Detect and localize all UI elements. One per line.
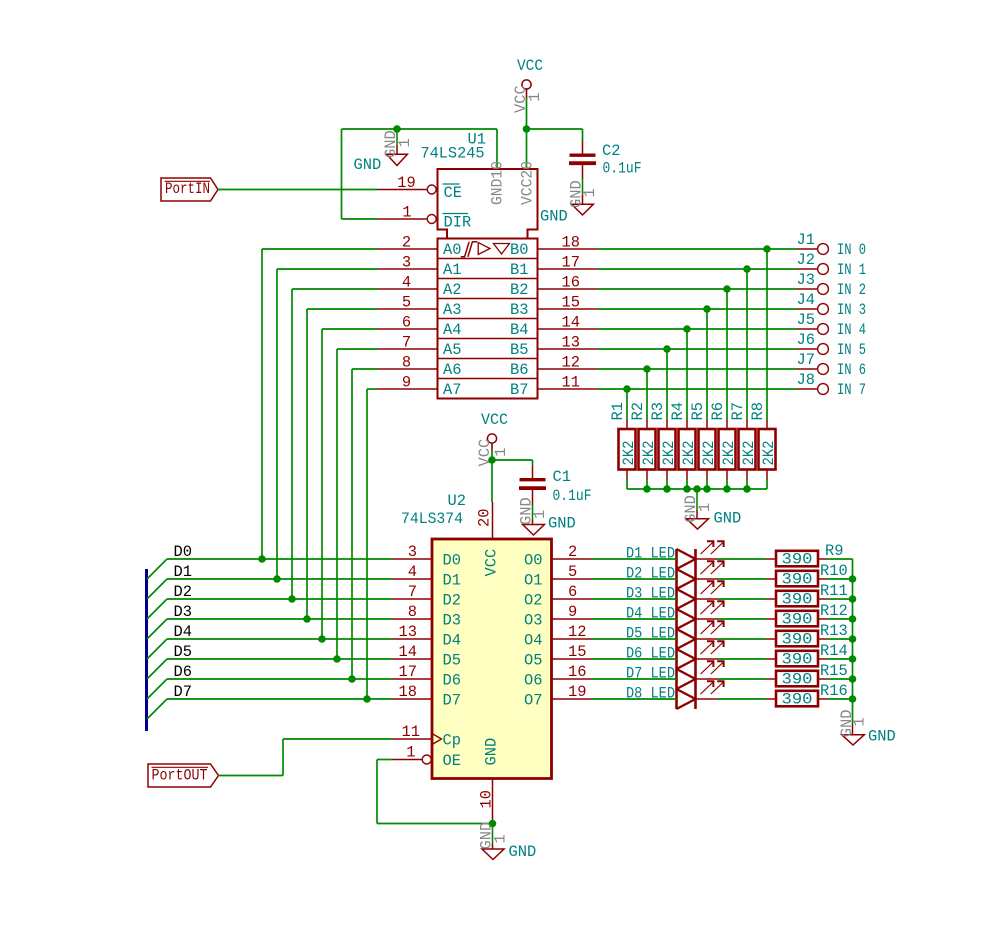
wire net D4 from U1 pin A4 to data wire — [322, 329, 378, 639]
svg-text:R15: R15 — [820, 662, 848, 680]
wire net from LED D8 to resistor R16 — [718, 698, 767, 700]
wire resistor R4 bottom to ground rail — [686, 480, 688, 490]
diode D8 LED — [626, 681, 725, 709]
wire net from U2 O4 to LED D5 — [592, 638, 677, 640]
wire resistor R16 to ground rail — [828, 698, 853, 700]
connector J1 pin (IN 0) — [797, 231, 867, 259]
svg-text:D1 LED: D1 LED — [626, 545, 675, 563]
wire VCC net down to C2 top — [582, 129, 584, 141]
svg-text:1: 1 — [402, 204, 411, 222]
svg-text:D5 LED: D5 LED — [626, 625, 675, 643]
resistor R8 2K2 — [749, 402, 778, 479]
wire net IN4 down to resistor R4 — [686, 329, 688, 420]
LED array cathode bar line — [694, 549, 697, 709]
junction net IN0 at resistor tap — [763, 245, 771, 253]
connector J6 pin (IN 5) — [797, 331, 867, 359]
svg-text:7: 7 — [408, 583, 417, 601]
svg-text:IN 4: IN 4 — [837, 321, 866, 339]
svg-text:11: 11 — [402, 723, 420, 741]
svg-text:D6 LED: D6 LED — [626, 645, 675, 663]
svg-text:B2: B2 — [510, 281, 528, 299]
svg-text:VCC20: VCC20 — [519, 161, 537, 205]
svg-text:2K2: 2K2 — [720, 441, 738, 466]
svg-text:2K2: 2K2 — [740, 441, 758, 466]
wire net D6 bus entry and data wire — [147, 679, 393, 699]
svg-text:IN 3: IN 3 — [837, 301, 866, 319]
svg-text:1: 1 — [396, 138, 414, 147]
diode D7 LED — [626, 661, 725, 689]
resistor R12 390 — [767, 602, 848, 628]
svg-text:IN 5: IN 5 — [837, 341, 866, 359]
svg-text:1: 1 — [581, 188, 599, 197]
wire net D1 bus entry and data wire — [147, 579, 393, 599]
svg-text:D3: D3 — [174, 603, 192, 621]
svg-text:J5: J5 — [797, 311, 815, 329]
junction net D7 at column x=367 — [363, 695, 371, 703]
svg-text:3: 3 — [408, 543, 417, 561]
junction net D6 at column x=352 — [348, 675, 356, 683]
wire resistor R2 bottom to ground rail — [646, 480, 648, 490]
svg-text:C1: C1 — [553, 468, 571, 486]
svg-text:18: 18 — [562, 234, 580, 252]
junction ground rail at x=667 — [663, 485, 671, 493]
wire resistor R5 bottom to ground rail — [706, 480, 708, 490]
wire OE net from U2 pin 1 to GND node — [377, 760, 493, 824]
ground GND supply symbol near U1 — [354, 129, 415, 174]
svg-text:IN 7: IN 7 — [837, 381, 866, 399]
wire net D0 bus entry and data wire — [147, 559, 393, 579]
svg-text:390: 390 — [782, 610, 813, 628]
svg-text:J4: J4 — [797, 291, 815, 309]
ground GND supply symbol below C1 — [518, 497, 576, 535]
net label flag PortIN — [161, 178, 218, 201]
wire resistor R11 to ground rail — [828, 598, 853, 600]
svg-text:R1: R1 — [609, 402, 627, 420]
svg-text:R8: R8 — [749, 402, 767, 420]
wire VCC net to C1 — [492, 460, 533, 466]
junction net D3 at column x=307 — [303, 615, 311, 623]
svg-text:J1: J1 — [797, 231, 815, 249]
svg-text:12: 12 — [568, 623, 586, 641]
diode D1 LED — [626, 541, 725, 569]
svg-text:19: 19 — [397, 174, 415, 192]
junction net D4 at column x=322 — [318, 635, 326, 643]
junction net IN6 at resistor tap — [643, 365, 651, 373]
svg-text:D4: D4 — [443, 632, 461, 650]
resistor R9 390 — [767, 542, 844, 568]
wire net D3 from U1 pin A3 to data wire — [307, 309, 378, 619]
svg-text:D1: D1 — [443, 572, 461, 590]
svg-text:1: 1 — [696, 503, 714, 512]
wire net IN1 down to resistor R7 — [746, 269, 748, 420]
svg-text:U2: U2 — [448, 492, 466, 510]
wire net D5 from U1 pin A5 to data wire — [337, 349, 378, 659]
wire net from LED D7 to resistor R15 — [718, 678, 767, 680]
svg-text:Cp: Cp — [443, 732, 461, 750]
svg-text:5: 5 — [402, 294, 411, 312]
svg-text:GND: GND — [509, 843, 537, 861]
power VCC supply symbol (top) — [512, 57, 544, 113]
wire resistor R9 to ground rail — [828, 558, 853, 560]
svg-text:A7: A7 — [443, 381, 461, 399]
svg-text:R6: R6 — [709, 402, 727, 420]
junction right ground rail row 4 — [849, 635, 857, 643]
resistor R11 390 — [767, 582, 848, 608]
connector J8 pin (IN 7) — [797, 371, 867, 399]
svg-text:R13: R13 — [820, 622, 848, 640]
svg-text:GND: GND — [714, 510, 742, 528]
wire net from U2 O2 to LED D3 — [592, 598, 677, 600]
svg-text:3: 3 — [402, 254, 411, 272]
svg-text:A0: A0 — [443, 241, 461, 259]
svg-text:D5: D5 — [174, 643, 192, 661]
net label flag PortOUT — [148, 764, 219, 787]
junction net IN7 at resistor tap — [623, 385, 631, 393]
svg-text:2K2: 2K2 — [640, 441, 658, 466]
junction net IN3 at resistor tap — [703, 305, 711, 313]
svg-text:18: 18 — [399, 683, 417, 701]
diode D3 LED — [626, 581, 725, 609]
wire net D5 bus entry and data wire — [147, 659, 393, 679]
wire net from LED D3 to resistor R11 — [718, 598, 767, 600]
junction right ground rail row 1 — [849, 575, 857, 583]
wire net from LED D2 to resistor R10 — [718, 578, 767, 580]
svg-text:390: 390 — [782, 650, 813, 668]
junction right ground rail row 5 — [849, 655, 857, 663]
svg-text:12: 12 — [562, 354, 580, 372]
svg-text:B7: B7 — [510, 381, 528, 399]
junction net IN4 at resistor tap — [683, 325, 691, 333]
svg-text:R12: R12 — [820, 602, 848, 620]
junction net D0 at column x=262 — [258, 555, 266, 563]
svg-text:2: 2 — [568, 543, 577, 561]
junction GND node at U1 — [393, 125, 401, 133]
svg-text:IN 2: IN 2 — [837, 281, 866, 299]
svg-text:O7: O7 — [524, 692, 542, 710]
connector J7 pin (IN 6) — [797, 351, 867, 379]
capacitor C2 0.1uF — [569, 141, 642, 179]
svg-text:D6: D6 — [174, 663, 192, 681]
svg-text:OE: OE — [443, 752, 461, 770]
wire GND net: stub down to U1 pin 10 — [496, 129, 498, 169]
svg-text:A1: A1 — [443, 261, 461, 279]
wire ground rail right side — [852, 559, 854, 725]
svg-text:390: 390 — [782, 550, 813, 568]
junction net D5 at column x=337 — [333, 655, 341, 663]
wire resistor R13 to ground rail — [828, 638, 853, 640]
wire ground rail under resistor bank — [627, 488, 767, 490]
svg-text:IN 1: IN 1 — [837, 261, 866, 279]
svg-text:PortOUT: PortOUT — [152, 767, 208, 785]
node D4 net label — [174, 623, 192, 641]
svg-text:B4: B4 — [510, 321, 528, 339]
svg-text:10: 10 — [478, 790, 496, 808]
svg-text:GND: GND — [354, 156, 382, 174]
svg-text:D2 LED: D2 LED — [626, 565, 675, 583]
wire net from U2 O3 to LED D4 — [592, 618, 677, 620]
svg-text:O4: O4 — [524, 632, 542, 650]
wire net from U2 O5 to LED D6 — [592, 658, 677, 660]
wire net D7 bus entry and data wire — [147, 699, 393, 719]
wire net from U2 O6 to LED D7 — [592, 678, 677, 680]
svg-text:9: 9 — [402, 374, 411, 392]
wire net IN3 down to resistor R5 — [706, 309, 708, 420]
svg-text:15: 15 — [562, 294, 580, 312]
svg-text:4: 4 — [408, 563, 417, 581]
svg-text:2K2: 2K2 — [660, 441, 678, 466]
wire VCC net horizontal to C2 — [527, 128, 583, 130]
svg-text:D7 LED: D7 LED — [626, 665, 675, 683]
svg-text:J8: J8 — [797, 371, 815, 389]
ground GND supply symbol below C2 — [540, 179, 599, 226]
svg-text:8: 8 — [402, 354, 411, 372]
svg-text:R11: R11 — [820, 582, 848, 600]
diode D2 LED — [626, 561, 725, 589]
wire resistor R12 to ground rail — [828, 618, 853, 620]
connector J2 pin (IN 1) — [797, 251, 867, 279]
svg-text:13: 13 — [562, 334, 580, 352]
svg-text:VCC: VCC — [483, 549, 501, 577]
wire resistor R1 bottom to ground rail — [626, 480, 628, 490]
svg-text:R5: R5 — [689, 402, 707, 420]
junction GND node at U2 pin 10 — [489, 820, 497, 828]
svg-text:390: 390 — [782, 570, 813, 588]
svg-text:D1: D1 — [174, 563, 192, 581]
wire net D2 from U1 pin A2 to data wire — [292, 289, 378, 599]
svg-text:D0: D0 — [443, 552, 461, 570]
wire GND net: horizontal to U1 GND pin 10 stub — [342, 128, 498, 130]
svg-text:A3: A3 — [443, 301, 461, 319]
svg-text:O0: O0 — [524, 552, 542, 570]
LED array anode edge line — [675, 549, 678, 709]
resistor R15 390 — [767, 662, 848, 688]
wire net from LED D1 to resistor R9 — [718, 558, 767, 560]
svg-text:20: 20 — [476, 509, 494, 527]
svg-text:9: 9 — [568, 603, 577, 621]
wire net IN6 from U1 pin B6 to connector J7 — [598, 368, 798, 370]
resistor R14 390 — [767, 642, 848, 668]
svg-text:D3 LED: D3 LED — [626, 585, 675, 603]
wire net D2 bus entry and data wire — [147, 599, 393, 619]
op-amp U1 74LS245 octal bus transceiver — [378, 131, 598, 400]
wire net D0 from U1 pin A0 to data wire — [262, 249, 378, 559]
wire net from U2 O1 to LED D2 — [592, 578, 677, 580]
svg-text:VCC: VCC — [517, 57, 543, 75]
wire resistor R14 to ground rail — [828, 658, 853, 660]
resistor R16 390 — [767, 682, 848, 708]
wire net IN1 from U1 pin B1 to connector J2 — [598, 268, 798, 270]
svg-text:13: 13 — [399, 623, 417, 641]
wire net IN7 from U1 pin B7 to connector J8 — [598, 388, 798, 390]
wire net from U2 O0 to LED D1 — [592, 558, 677, 560]
resistor R10 390 — [767, 562, 848, 588]
junction ground rail at GND tap — [693, 485, 701, 493]
junction right ground rail row 7 — [849, 695, 857, 703]
wire net IN5 down to resistor R3 — [666, 349, 668, 420]
junction ground rail at x=687 — [683, 485, 691, 493]
connector J5 pin (IN 4) — [797, 311, 867, 339]
wire VCC net vertical from supply to U1 VCC pin 20 — [526, 99, 528, 169]
svg-text:R4: R4 — [669, 402, 687, 420]
wire resistor R15 to ground rail — [828, 678, 853, 680]
bus D[0..7] vertical bus line — [145, 569, 148, 731]
junction net IN2 at resistor tap — [723, 285, 731, 293]
diode D4 LED — [626, 601, 725, 629]
wire net IN6 down to resistor R2 — [646, 369, 648, 420]
svg-text:D4 LED: D4 LED — [626, 605, 675, 623]
svg-text:GND: GND — [540, 208, 568, 226]
svg-text:C2: C2 — [602, 142, 620, 160]
svg-text:R14: R14 — [820, 642, 848, 660]
svg-text:19: 19 — [568, 683, 586, 701]
wire PortIN net to U1 CE pin 19 — [218, 189, 378, 191]
resistor R2 2K2 — [629, 402, 658, 479]
svg-text:1: 1 — [492, 447, 510, 456]
svg-text:A4: A4 — [443, 321, 461, 339]
svg-text:390: 390 — [782, 630, 813, 648]
node D0 net label — [174, 543, 192, 561]
svg-text:O5: O5 — [524, 652, 542, 670]
svg-text:7: 7 — [402, 334, 411, 352]
svg-text:J7: J7 — [797, 351, 815, 369]
svg-text:O6: O6 — [524, 672, 542, 690]
node D2 net label — [174, 583, 192, 601]
svg-text:2: 2 — [402, 234, 411, 252]
svg-text:2K2: 2K2 — [700, 441, 718, 466]
svg-text:O1: O1 — [524, 572, 542, 590]
svg-text:B1: B1 — [510, 261, 528, 279]
capacitor C1 0.1uF — [519, 466, 592, 505]
wire net IN4 from U1 pin B4 to connector J5 — [598, 328, 798, 330]
wire resistor R8 bottom to ground rail — [766, 480, 768, 490]
svg-text:A6: A6 — [443, 361, 461, 379]
wire net D4 bus entry and data wire — [147, 639, 393, 659]
svg-text:B5: B5 — [510, 341, 528, 359]
op-amp U2 74LS374 octal D flip-flop — [393, 492, 592, 824]
svg-text:GND: GND — [868, 728, 896, 746]
svg-text:D4: D4 — [174, 623, 192, 641]
svg-text:CE: CE — [444, 184, 462, 202]
wire net IN0 from U1 pin B0 to connector J1 — [598, 248, 798, 250]
svg-text:1: 1 — [531, 510, 549, 519]
svg-text:R10: R10 — [820, 562, 848, 580]
wire GND net: DIR pin 1 to left rail — [342, 218, 378, 220]
svg-text:16: 16 — [562, 274, 580, 292]
svg-text:2K2: 2K2 — [680, 441, 698, 466]
svg-text:B6: B6 — [510, 361, 528, 379]
svg-text:14: 14 — [562, 314, 580, 332]
svg-text:2K2: 2K2 — [620, 441, 638, 466]
svg-text:O2: O2 — [524, 592, 542, 610]
svg-text:GND: GND — [548, 515, 576, 533]
wire net IN7 down to resistor R1 — [626, 389, 628, 420]
node D1 net label — [174, 563, 192, 581]
svg-text:IN 6: IN 6 — [837, 361, 866, 379]
wire net from LED D4 to resistor R12 — [718, 618, 767, 620]
svg-text:1: 1 — [406, 744, 415, 762]
svg-text:A5: A5 — [443, 341, 461, 359]
svg-text:D8 LED: D8 LED — [626, 685, 675, 703]
ground GND supply symbol below U2 — [478, 822, 537, 861]
connector J3 pin (IN 2) — [797, 271, 867, 299]
svg-text:14: 14 — [399, 643, 417, 661]
svg-text:1: 1 — [491, 834, 509, 843]
junction VCC node at U1 — [523, 125, 531, 133]
svg-text:A2: A2 — [443, 281, 461, 299]
svg-text:J2: J2 — [797, 251, 815, 269]
resistor R7 2K2 — [729, 402, 758, 479]
node D6 net label — [174, 663, 192, 681]
svg-text:IN 0: IN 0 — [837, 241, 866, 259]
svg-text:17: 17 — [562, 254, 580, 272]
wire resistor R3 bottom to ground rail — [666, 480, 668, 490]
node D5 net label — [174, 643, 192, 661]
resistor R1 2K2 — [609, 402, 638, 479]
junction ground rail at x=707 — [703, 485, 711, 493]
resistor R4 2K2 — [669, 402, 698, 479]
svg-text:0.1uF: 0.1uF — [603, 160, 642, 178]
wire GND net: left vertical rail — [341, 129, 343, 219]
junction net IN5 at resistor tap — [663, 345, 671, 353]
node D3 net label — [174, 603, 192, 621]
svg-text:390: 390 — [782, 670, 813, 688]
svg-text:R16: R16 — [820, 682, 848, 700]
svg-text:D7: D7 — [443, 692, 461, 710]
svg-text:0.1uF: 0.1uF — [553, 487, 592, 505]
wire PortOUT net to U2 Cp pin 11 — [219, 739, 393, 776]
wire net IN2 down to resistor R6 — [726, 289, 728, 420]
junction right ground rail row 2 — [849, 595, 857, 603]
wire VCC net vertical to U2 pin 20 — [491, 450, 493, 502]
wire net D7 from U1 pin A7 to data wire — [367, 389, 378, 699]
wire net D3 bus entry and data wire — [147, 619, 393, 639]
svg-text:B0: B0 — [510, 241, 528, 259]
junction ground rail at x=747 — [743, 485, 751, 493]
svg-text:6: 6 — [568, 583, 577, 601]
svg-text:D7: D7 — [174, 683, 192, 701]
svg-text:D0: D0 — [174, 543, 192, 561]
svg-text:16: 16 — [568, 663, 586, 681]
wire resistor R6 bottom to ground rail — [726, 480, 728, 490]
svg-text:D2: D2 — [443, 592, 461, 610]
svg-text:GND10: GND10 — [489, 161, 507, 205]
svg-text:D6: D6 — [443, 672, 461, 690]
wire net IN2 from U1 pin B2 to connector J3 — [598, 288, 798, 290]
resistor R3 2K2 — [649, 402, 678, 479]
svg-text:2K2: 2K2 — [760, 441, 778, 466]
svg-text:R9: R9 — [825, 542, 843, 560]
wire net from U2 O7 to LED D8 — [592, 698, 677, 700]
svg-text:4: 4 — [402, 274, 411, 292]
connector J4 pin (IN 3) — [797, 291, 867, 319]
power VCC supply symbol (above U2) — [476, 411, 510, 467]
svg-text:74LS374: 74LS374 — [401, 510, 463, 528]
svg-text:D3: D3 — [443, 612, 461, 630]
wire resistor R10 to ground rail — [828, 578, 853, 580]
diode D5 LED — [626, 621, 725, 649]
svg-text:11: 11 — [562, 374, 580, 392]
junction ground rail at x=647 — [643, 485, 651, 493]
node D7 net label — [174, 683, 192, 701]
junction net D1 at column x=277 — [273, 575, 281, 583]
wire net from LED D5 to resistor R13 — [718, 638, 767, 640]
svg-text:D5: D5 — [443, 652, 461, 670]
wire net D1 from U1 pin A1 to data wire — [277, 269, 378, 579]
svg-text:O3: O3 — [524, 612, 542, 630]
junction right ground rail row 3 — [849, 615, 857, 623]
resistor R6 2K2 — [709, 402, 738, 479]
svg-text:1: 1 — [851, 717, 869, 726]
